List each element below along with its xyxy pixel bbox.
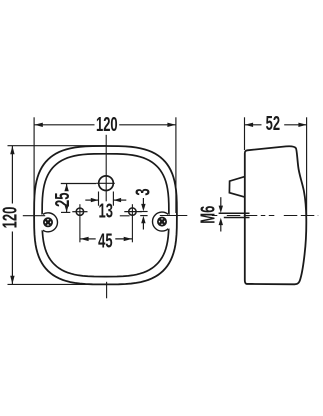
front view: lamp inner bezel outline xyxy=(42,154,169,277)
top hole circle d13 xyxy=(99,176,114,191)
dim 13: extension lines xyxy=(98,192,100,206)
left stud M6 xyxy=(76,208,83,215)
right stud M6 xyxy=(129,208,136,215)
dim 52: dimension line xyxy=(245,124,262,126)
svg-text:M6: M6 xyxy=(197,206,220,224)
dim M6: arrows xyxy=(220,197,222,207)
dim 45: dimension line xyxy=(80,238,96,240)
right screw keyhole cutout xyxy=(152,212,172,232)
front view: lamp outer outline xyxy=(34,146,177,284)
vertical centerline below lamp xyxy=(106,282,108,299)
svg-text:52: 52 xyxy=(266,112,280,135)
side view: M6 stud lines xyxy=(219,212,250,214)
dim 25: ticks xyxy=(61,183,96,185)
dim 52: extension lines xyxy=(244,117,246,150)
hole horizontal crosshair xyxy=(96,182,115,184)
dim 3: ticks xyxy=(140,211,147,213)
side view: dashed centerline xyxy=(212,215,318,217)
dim 120 left: extension lines xyxy=(8,145,108,147)
svg-text:45: 45 xyxy=(98,230,112,253)
vertical centerline through hole xyxy=(105,135,107,202)
side view: mounting bracket tab xyxy=(229,177,244,198)
dim 3: arrows xyxy=(142,198,144,206)
left screw xyxy=(44,218,52,226)
dim 120 left: dimension line xyxy=(11,146,13,204)
left screw keyhole cutout xyxy=(38,212,58,232)
horizontal centerline tick left xyxy=(23,215,45,217)
svg-text:120: 120 xyxy=(0,207,21,229)
svg-text:120: 120 xyxy=(96,113,118,136)
dim 120 top: dimension line xyxy=(34,124,94,126)
left stud crosshair xyxy=(72,211,87,213)
horizontal centerline tick right xyxy=(160,215,188,217)
dim 25: dimension line and arrows xyxy=(66,184,68,191)
svg-text:3: 3 xyxy=(132,188,155,195)
dim 120 top: extension lines xyxy=(33,117,35,213)
right screw xyxy=(158,218,166,226)
dim 13: arrows outside xyxy=(85,199,98,201)
svg-text:13: 13 xyxy=(98,200,112,223)
right stud crosshair xyxy=(124,211,142,213)
side view: body outline xyxy=(245,146,307,284)
svg-text:25: 25 xyxy=(51,193,74,207)
horizontal centerline segment mid xyxy=(120,215,130,217)
